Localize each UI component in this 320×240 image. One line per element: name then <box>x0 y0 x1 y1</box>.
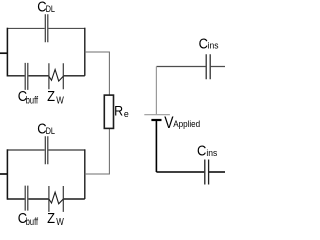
svg-text:ins: ins <box>208 40 220 50</box>
svg-text:e: e <box>124 109 129 119</box>
svg-text:DL: DL <box>46 3 56 14</box>
svg-text:W: W <box>56 95 64 106</box>
svg-text:C: C <box>199 34 208 51</box>
svg-text:Applied: Applied <box>173 118 200 129</box>
svg-text:ins: ins <box>206 148 218 158</box>
svg-text:R: R <box>114 103 123 119</box>
svg-text:Z: Z <box>47 87 55 104</box>
svg-text:buff: buff <box>26 216 39 225</box>
svg-text:C: C <box>197 141 206 158</box>
svg-text:Z: Z <box>47 209 55 225</box>
svg-text:buff: buff <box>26 94 39 105</box>
svg-text:W: W <box>56 216 64 225</box>
svg-text:DL: DL <box>46 125 56 136</box>
